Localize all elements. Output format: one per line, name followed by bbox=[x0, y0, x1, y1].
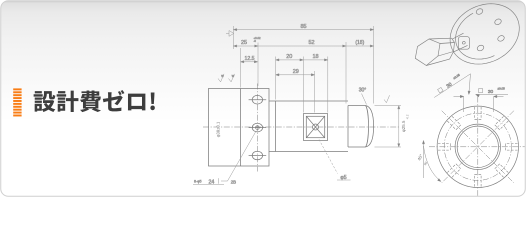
bolt circle centerline bbox=[444, 113, 511, 180]
dimension 12.5 bbox=[241, 56, 258, 63]
30 degree chamfer note bbox=[359, 87, 367, 104]
svg-text:8-φ5: 8-φ5 bbox=[194, 180, 202, 184]
iso hex prism edges bbox=[429, 37, 452, 40]
iso flange front face rim arc bbox=[456, 13, 495, 59]
extension lines bbox=[233, 26, 373, 113]
svg-text:25: 25 bbox=[241, 40, 247, 46]
orange stripe icon bbox=[13, 88, 21, 116]
bottom left hole callout bbox=[193, 131, 256, 186]
shaft body bbox=[269, 101, 348, 152]
svg-text:2B: 2B bbox=[231, 179, 236, 184]
surface mark right bbox=[384, 95, 390, 103]
svg-text:30°: 30° bbox=[359, 87, 367, 93]
iso hex back edge bbox=[450, 38, 455, 59]
45 degree dimension bbox=[424, 141, 442, 182]
headline text 設計費ゼロ! bbox=[34, 90, 155, 112]
front view centerlines bbox=[429, 97, 527, 200]
horizontal centerline bbox=[203, 126, 400, 128]
surface finish marks bbox=[218, 74, 235, 82]
horizontal square-30 note bbox=[476, 93, 509, 95]
diameter 25.5 dimension right bbox=[375, 106, 409, 148]
flange plate outline bbox=[209, 89, 270, 167]
front view outer circle bbox=[437, 106, 518, 187]
phi5 leader note bbox=[319, 140, 351, 181]
iso hex head face bbox=[415, 39, 440, 66]
svg-text:12.5: 12.5 bbox=[244, 56, 254, 62]
svg-text:30: 30 bbox=[488, 89, 494, 95]
datum triangle mark bbox=[226, 31, 234, 37]
front view square-30 dimension bbox=[454, 97, 504, 113]
threaded end bbox=[348, 106, 374, 148]
iso flange face holes bbox=[476, 9, 483, 15]
svg-text:φ5: φ5 bbox=[340, 175, 346, 181]
dimension 29 bbox=[276, 69, 315, 76]
svg-text:85: 85 bbox=[300, 24, 306, 30]
bolt hole top bbox=[249, 95, 267, 104]
svg-text:(18): (18) bbox=[355, 40, 364, 46]
front view bore circles bbox=[457, 126, 498, 167]
bolt hole bottom bbox=[249, 151, 267, 160]
svg-text:20: 20 bbox=[286, 54, 292, 60]
dimension 20 / 18 bbox=[276, 54, 328, 61]
iso cylinder bbox=[453, 33, 464, 39]
iso square-30 callouts bbox=[434, 73, 508, 98]
iso keyway and screw hole bbox=[458, 37, 469, 50]
dimension 85 bbox=[233, 24, 373, 31]
svg-text:52: 52 bbox=[308, 40, 314, 46]
front view diagonal centerlines bbox=[442, 111, 514, 183]
svg-text:29: 29 bbox=[293, 69, 299, 75]
svg-text:18: 18 bbox=[312, 54, 318, 60]
left vertical size text bbox=[217, 122, 221, 137]
bolt hole middle bbox=[249, 123, 267, 132]
rotated square-30 note with leader bbox=[434, 74, 470, 98]
front view rim slots bbox=[505, 144, 517, 151]
flange step line bbox=[240, 89, 242, 167]
square section with diagonals bbox=[304, 114, 328, 141]
vertical centerline of flange holes bbox=[256, 84, 258, 172]
iso flange disc silhouette bbox=[450, 4, 519, 64]
svg-text:-0: -0 bbox=[254, 39, 257, 43]
dimension row 25 / 52 / (18) bbox=[233, 36, 373, 47]
svg-text:±0.05: ±0.05 bbox=[498, 87, 506, 91]
